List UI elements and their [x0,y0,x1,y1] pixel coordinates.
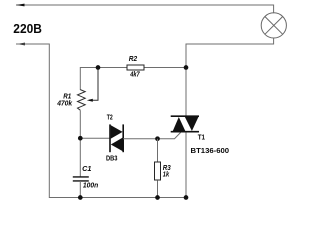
node dot R1 wiper junction [96,65,101,70]
svg-text:T1: T1 [198,133,205,142]
resistor R2 [127,65,144,70]
svg-text:470k: 470k [56,99,73,108]
node dot R2 right junction [184,65,189,70]
resistor R3 [155,162,161,180]
arrow lower-left mains terminal [16,43,25,46]
svg-text:DB3: DB3 [106,153,118,162]
lamp EL1 [261,13,286,38]
wiper of R1 (rheostat connection) [89,68,98,101]
svg-text:220В: 220В [13,21,42,36]
wire R1 top branch [80,68,186,91]
wire R3 branch [157,139,159,162]
wire R3 bottom [157,181,159,198]
resistor R1 zigzag [78,90,86,111]
node dot R3 bottom rail [155,195,160,200]
triac T1 [171,116,199,132]
svg-text:BT136-600: BT136-600 [191,146,230,155]
node dot R3 top junction [155,136,160,141]
svg-text:R2: R2 [129,54,137,63]
capacitor C1 [73,177,89,181]
node dot bottom-right corner [184,195,189,200]
svg-text:4k7: 4k7 [129,69,140,78]
wire lamp bottom to triac top [186,38,274,116]
wire diac to triac gate [123,132,181,138]
node dot C1 bottom rail [78,195,83,200]
svg-text:100n: 100n [83,180,99,189]
node dot R1/C1/diac junction [78,136,83,141]
wire top rail 220V to lamp [16,5,274,13]
svg-text:C1: C1 [82,164,91,173]
svg-text:1k: 1k [163,169,170,178]
wire left rail [16,44,186,198]
wire triac bottom to rail [185,133,187,198]
diac T2 DB3 [110,124,123,152]
svg-text:T2: T2 [107,113,113,122]
arrow top-left mains terminal [16,4,25,7]
wire node to diac [80,137,110,139]
wire C1 bottom [79,181,81,198]
wire R1 bottom to C1 node [79,110,81,176]
